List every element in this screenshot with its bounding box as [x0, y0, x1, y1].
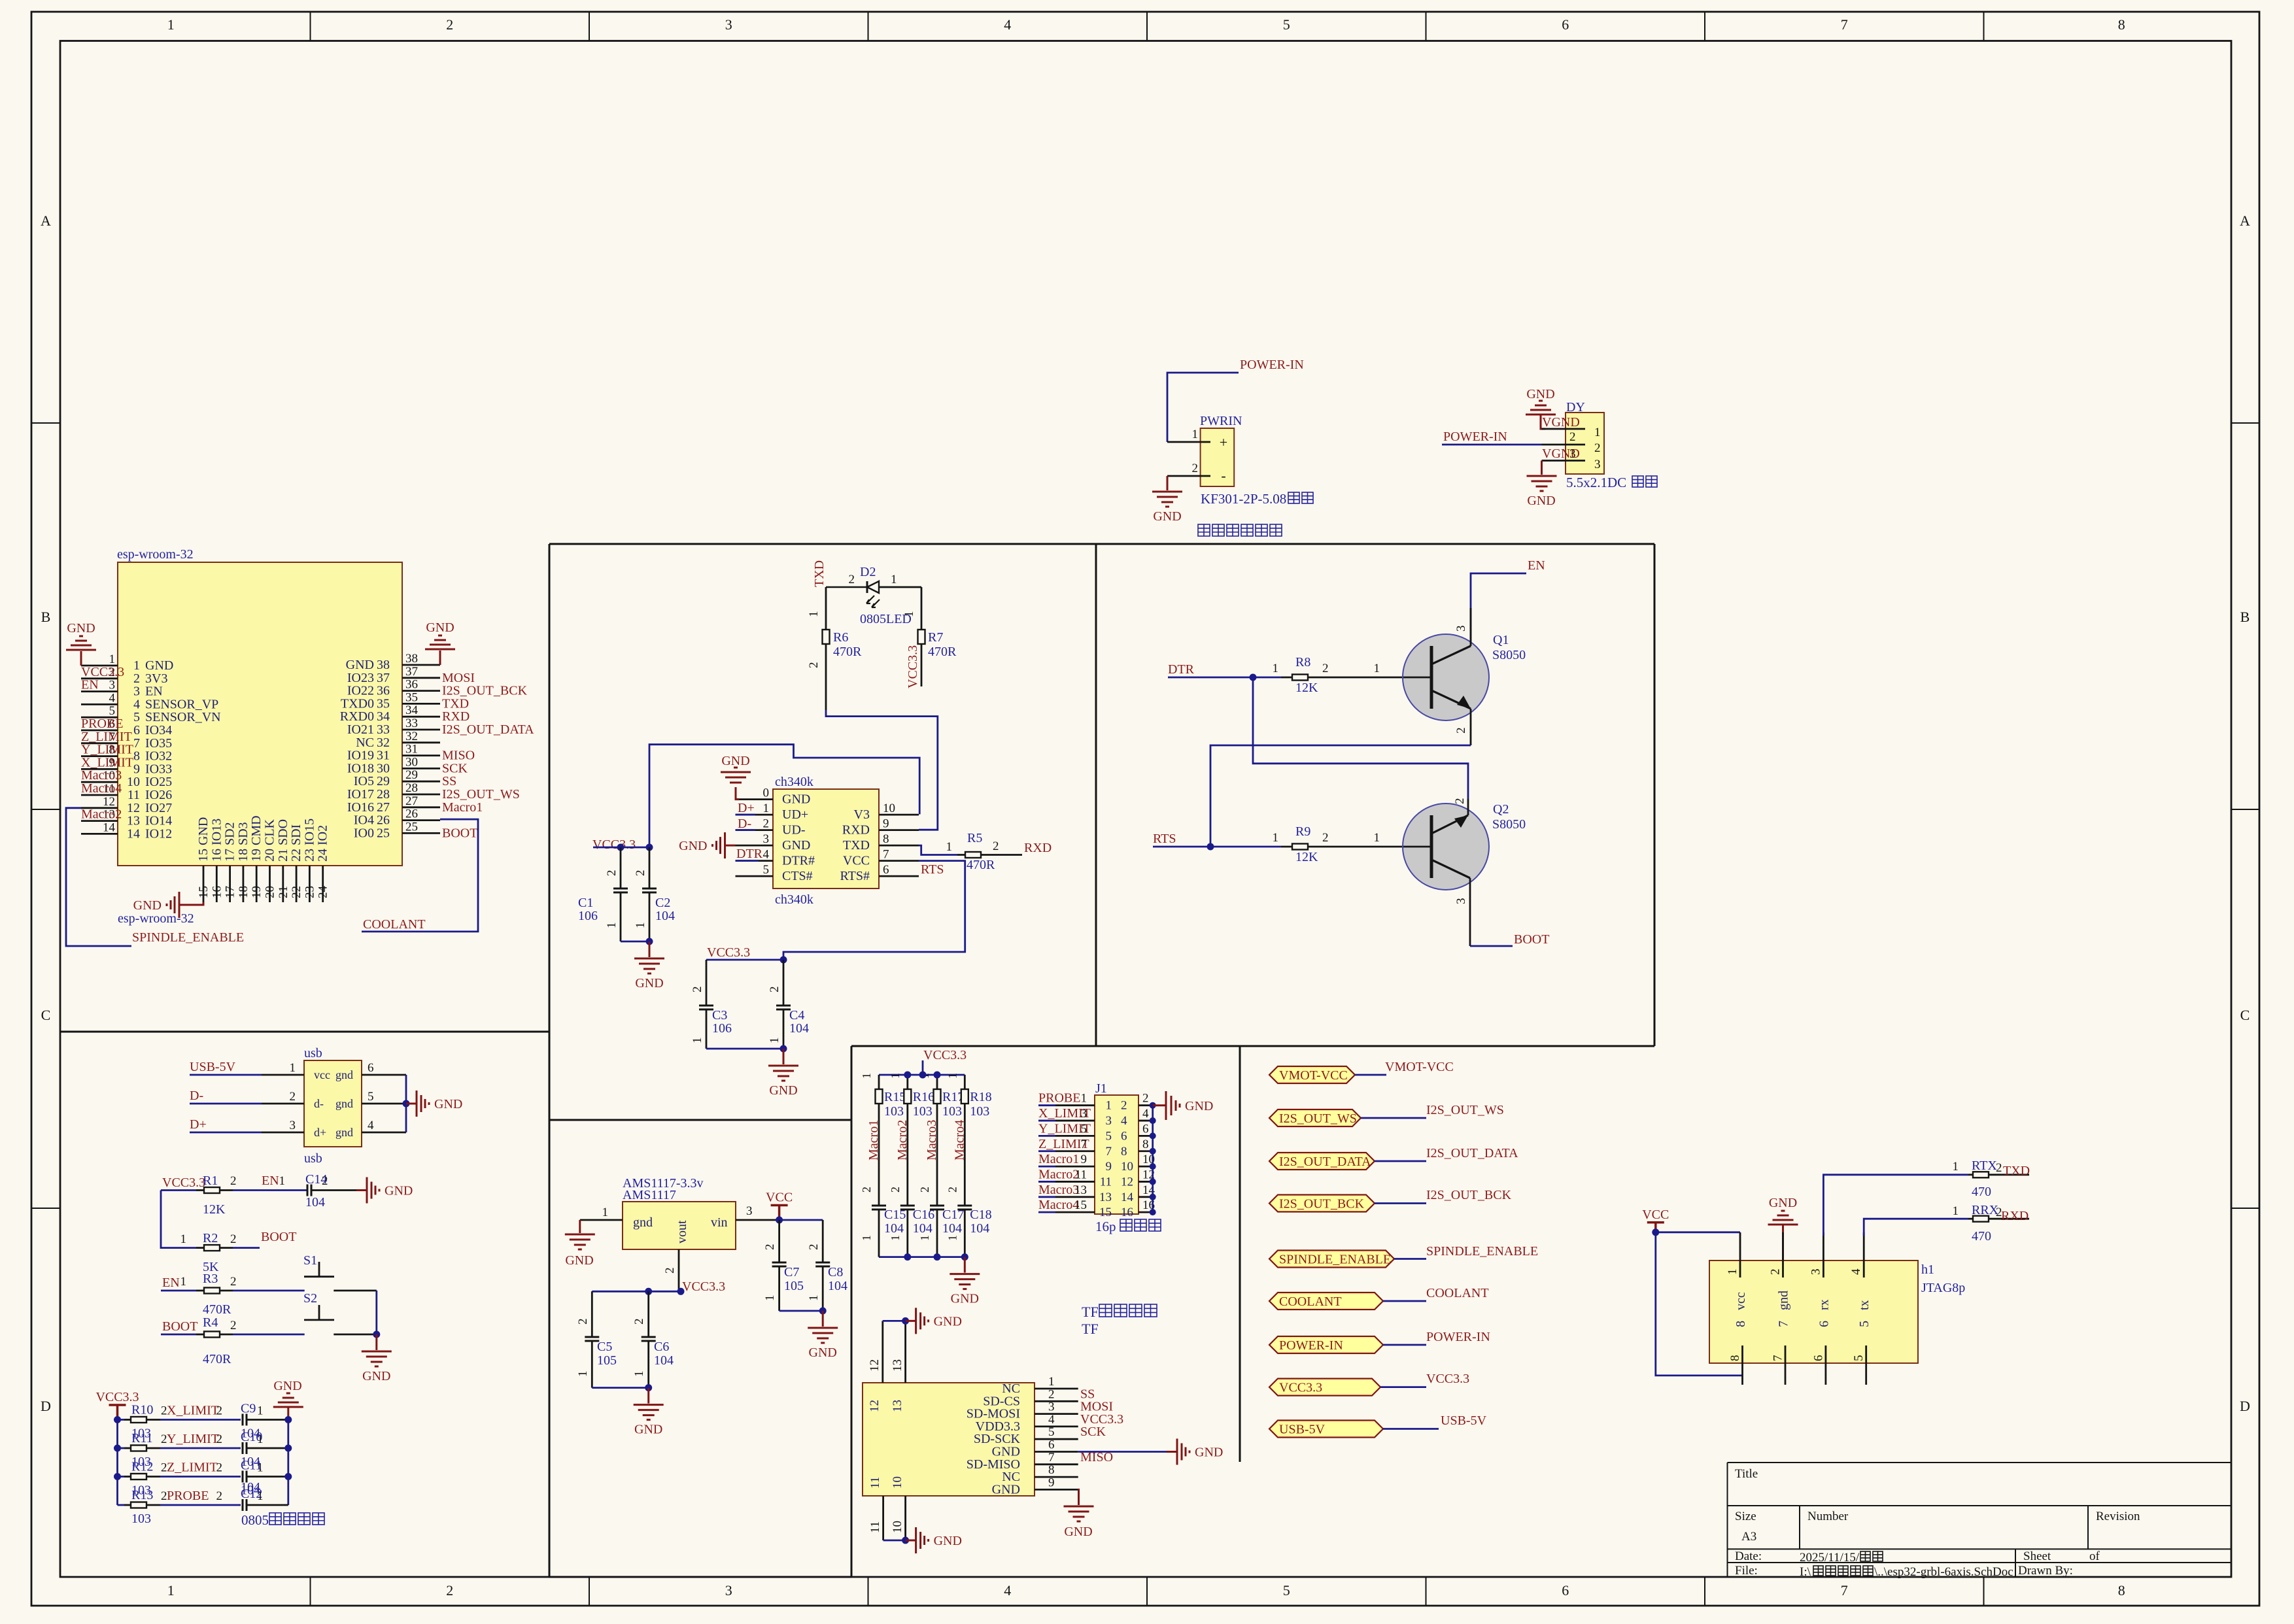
pin 1 TF right	[1035, 1388, 1078, 1390]
capacitor C6	[632, 1291, 674, 1387]
svg-text:JTAG8p: JTAG8p	[1921, 1281, 1965, 1295]
svg-text:2: 2	[605, 870, 619, 877]
svg-text:1: 1	[1374, 831, 1380, 845]
svg-text:RTS#: RTS#	[840, 869, 870, 883]
svg-text:1: 1	[1726, 1269, 1739, 1276]
ground C3C4	[768, 1049, 798, 1081]
svg-text:10: 10	[1121, 1160, 1133, 1174]
svg-text:35: 35	[405, 690, 418, 704]
svg-text:GND: GND	[1769, 1196, 1797, 1210]
svg-text:usb: usb	[304, 1046, 322, 1060]
svg-text:1: 1	[257, 1461, 264, 1475]
capacitor C10	[216, 1430, 288, 1469]
junction VCC jtag	[1652, 1228, 1659, 1236]
junction J1 rail	[1150, 1178, 1156, 1185]
svg-text:tx: tx	[1857, 1300, 1872, 1310]
svg-text:PROBE: PROBE	[81, 717, 123, 731]
svg-text:J1: J1	[1095, 1081, 1107, 1096]
svg-text:IO12: IO12	[145, 826, 172, 841]
ground C5C6	[634, 1388, 664, 1420]
svg-text:\..\esp32-grbl-6axis.SchDoc: \..\esp32-grbl-6axis.SchDoc	[1874, 1565, 2013, 1579]
junction vout	[677, 1288, 685, 1295]
svg-text:3: 3	[1594, 458, 1601, 471]
junction left rail	[114, 1416, 121, 1423]
svg-text:B: B	[41, 609, 51, 625]
pin 1 h1 top	[1739, 1232, 1741, 1277]
svg-text:15 GND: 15 GND	[196, 817, 211, 862]
svg-text:EN: EN	[162, 1276, 180, 1290]
svg-text:IO23: IO23	[347, 671, 374, 685]
junction C6 top	[645, 1288, 652, 1295]
svg-text:6: 6	[1121, 1129, 1127, 1143]
svg-text:GND: GND	[385, 1184, 413, 1198]
svg-text:1: 1	[860, 1073, 873, 1079]
svg-text:19: 19	[250, 886, 264, 898]
svg-text:2: 2	[1048, 1387, 1055, 1401]
svg-text:2: 2	[1453, 798, 1467, 805]
pin 3 h1 top	[1823, 1232, 1824, 1277]
svg-text:EN: EN	[81, 678, 99, 692]
svg-text:GND: GND	[721, 754, 749, 768]
junction J1 rail	[1150, 1209, 1156, 1215]
svg-text:gnd: gnd	[335, 1068, 353, 1081]
svg-text:POWER-IN: POWER-IN	[1426, 1330, 1490, 1344]
svg-text:8: 8	[2118, 16, 2125, 33]
svg-text:21: 21	[277, 886, 290, 898]
svg-text:3: 3	[1809, 1269, 1823, 1276]
pin 25 esp right	[402, 832, 440, 834]
svg-text:RXD0: RXD0	[340, 709, 374, 724]
button S1	[303, 1253, 377, 1291]
svg-text:3: 3	[109, 679, 116, 692]
svg-text:V3: V3	[854, 807, 870, 822]
svg-text:11: 11	[1100, 1175, 1112, 1189]
junction left rail	[114, 1473, 121, 1480]
svg-text:GND: GND	[1195, 1446, 1223, 1460]
svg-text:R13: R13	[131, 1488, 153, 1502]
svg-text:EN: EN	[1528, 558, 1545, 573]
ground usb	[406, 1091, 429, 1117]
svg-text:C4: C4	[789, 1008, 804, 1023]
svg-text:2: 2	[1121, 1099, 1127, 1113]
pin 5 esp left	[81, 717, 118, 719]
capacitor C11	[216, 1459, 288, 1498]
svg-text:3: 3	[1569, 447, 1576, 461]
resistor R18	[946, 1073, 991, 1206]
svg-text:SPINDLE_ENABLE: SPINDLE_ENABLE	[1426, 1244, 1538, 1259]
junction J1 rail	[1150, 1148, 1156, 1155]
svg-text:KF301-2P-5.08: KF301-2P-5.08	[1201, 491, 1286, 507]
svg-text:1: 1	[807, 611, 821, 618]
capacitor C5	[576, 1291, 617, 1387]
pin 8 esp left	[81, 755, 118, 757]
svg-text:IO4: IO4	[354, 813, 374, 828]
capacitor C16	[889, 1206, 934, 1257]
svg-text:USB-5V: USB-5V	[1441, 1413, 1487, 1428]
wire BOOT at Q2	[1470, 945, 1513, 947]
svg-text:2: 2	[216, 1461, 223, 1475]
svg-text:C18: C18	[970, 1208, 991, 1222]
svg-text:4: 4	[368, 1119, 374, 1132]
connector PWRIN KF301-2P	[1167, 414, 1313, 507]
svg-text:2: 2	[807, 1244, 821, 1251]
svg-text:IO25: IO25	[145, 775, 172, 789]
ground S2	[362, 1334, 392, 1366]
svg-text:GND: GND	[634, 1423, 662, 1437]
svg-text:GND: GND	[362, 1369, 390, 1383]
svg-text:3: 3	[1048, 1400, 1055, 1414]
pin 36 esp right	[402, 690, 440, 692]
ground esp pin1	[66, 621, 96, 666]
ground C14	[356, 1177, 379, 1204]
svg-text:2: 2	[763, 1244, 777, 1251]
svg-text:6: 6	[883, 863, 889, 877]
pin 12 J1 right	[1138, 1181, 1153, 1183]
wire vin to C7 C8	[779, 1219, 823, 1221]
wire TF top pins to gnd	[883, 1320, 906, 1322]
svg-text:8: 8	[1728, 1355, 1742, 1362]
svg-text:R15: R15	[884, 1090, 906, 1104]
wire D+ stub	[736, 814, 756, 816]
junction bottom rail	[961, 1253, 968, 1260]
junction J1 rail	[1150, 1102, 1156, 1109]
svg-text:POWER-IN: POWER-IN	[1443, 430, 1507, 444]
pin 7 TF right	[1035, 1463, 1078, 1465]
wire VCC down to pin8	[1656, 1232, 1743, 1376]
svg-text:USB-5V: USB-5V	[1279, 1423, 1326, 1437]
junction bottom rail	[934, 1253, 941, 1260]
svg-text:GND: GND	[782, 838, 810, 853]
svg-text:C: C	[2240, 1007, 2250, 1023]
junction RTS	[1207, 843, 1214, 851]
svg-text:1: 1	[257, 1404, 264, 1418]
svg-text:1: 1	[946, 1073, 959, 1079]
svg-text:RTX: RTX	[1972, 1159, 1997, 1173]
ic esp-wroom-32	[81, 547, 534, 926]
svg-text:2: 2	[889, 1187, 902, 1193]
svg-text:3: 3	[763, 832, 770, 846]
svg-text:5.5x2.1DC: 5.5x2.1DC	[1566, 475, 1626, 490]
svg-text:35: 35	[377, 696, 390, 711]
svg-text:CTS#: CTS#	[782, 869, 813, 883]
svg-text:6: 6	[1048, 1438, 1055, 1452]
pin 2 J1 right	[1138, 1104, 1153, 1106]
svg-text:1: 1	[279, 1174, 286, 1188]
svg-text:D: D	[2240, 1398, 2250, 1414]
svg-text:VCC: VCC	[843, 854, 870, 868]
svg-text:1: 1	[902, 611, 916, 618]
svg-text:2: 2	[133, 671, 140, 686]
svg-text:106: 106	[578, 909, 598, 923]
wire DTR junction to Q2 emitter	[1253, 677, 1468, 799]
svg-text:IO17: IO17	[347, 787, 374, 802]
wire left rail R10 network	[116, 1420, 118, 1506]
svg-text:16: 16	[1121, 1206, 1133, 1219]
svg-text:GND: GND	[679, 839, 707, 853]
svg-text:3: 3	[1081, 1107, 1087, 1121]
pin 3 ch340 left	[736, 845, 774, 847]
svg-text:1: 1	[634, 922, 647, 929]
capacitor C15	[860, 1206, 906, 1257]
svg-text:38: 38	[405, 652, 418, 666]
svg-text:SS: SS	[442, 774, 456, 788]
svg-text:RTS: RTS	[1153, 832, 1176, 846]
svg-text:28: 28	[405, 781, 418, 795]
svg-text:1: 1	[1273, 831, 1279, 845]
svg-text:X_LIMIT: X_LIMIT	[167, 1404, 219, 1418]
svg-text:IO18: IO18	[347, 761, 374, 775]
svg-text:esp-wroom-32: esp-wroom-32	[118, 911, 194, 926]
ground PWRIN pin2	[1152, 476, 1182, 524]
svg-text:Q2: Q2	[1493, 802, 1509, 817]
svg-text:4: 4	[1004, 1582, 1011, 1599]
svg-text:UD+: UD+	[782, 807, 808, 822]
port flag VMOT-VCC	[1269, 1060, 1454, 1083]
svg-text:R8: R8	[1295, 655, 1310, 669]
svg-text:R4: R4	[203, 1315, 218, 1330]
wire SPINDLE_ENABLE from esp pin12	[66, 808, 131, 946]
pin 15 J1 left	[1038, 1211, 1055, 1213]
svg-text:VCC3.3: VCC3.3	[592, 837, 636, 852]
svg-text:1: 1	[632, 1371, 646, 1378]
pin 30 esp right	[402, 768, 440, 770]
svg-text:rx: rx	[1817, 1299, 1831, 1310]
svg-text:ch340k: ch340k	[775, 892, 813, 907]
pin 3 usb left	[190, 1132, 262, 1134]
ground R15 network	[950, 1257, 980, 1289]
pin 7 h1 bottom	[1785, 1345, 1787, 1385]
svg-text:104: 104	[305, 1195, 325, 1210]
svg-text:3: 3	[746, 1204, 753, 1218]
pin 26 esp right	[402, 819, 440, 821]
pin 8 J1 right	[1138, 1150, 1153, 1152]
svg-text:TXD: TXD	[812, 560, 827, 587]
wire Q1 emitter to RTS	[1210, 745, 1471, 847]
svg-text:of: of	[2089, 1549, 2100, 1563]
svg-text:D: D	[41, 1398, 51, 1414]
svg-text:34: 34	[377, 709, 390, 724]
ic ch340k U2	[736, 775, 919, 907]
svg-text:28: 28	[377, 787, 390, 802]
svg-text:GND: GND	[934, 1314, 962, 1328]
pin 13 J1 left	[1038, 1196, 1055, 1198]
svg-text:7: 7	[133, 736, 140, 751]
wire J1 right rail	[1152, 1106, 1154, 1212]
svg-text:Macro1: Macro1	[1038, 1152, 1079, 1166]
svg-text:D+: D+	[190, 1117, 207, 1132]
svg-text:IO35: IO35	[145, 736, 172, 751]
svg-text:1: 1	[167, 1582, 175, 1599]
svg-text:R5: R5	[967, 831, 982, 845]
svg-text:MOSI: MOSI	[442, 671, 475, 685]
pin 16 J1 right	[1138, 1211, 1153, 1213]
svg-text:32: 32	[377, 736, 390, 750]
svg-text:18 SD3: 18 SD3	[236, 822, 250, 862]
svg-text:Macro4: Macro4	[81, 781, 122, 796]
resistor R12	[118, 1460, 241, 1498]
pin 4 h1 top	[1863, 1232, 1865, 1277]
pin 1 usb left	[190, 1074, 262, 1076]
svg-text:C3: C3	[712, 1008, 727, 1023]
svg-text:4: 4	[133, 697, 140, 711]
svg-text:14: 14	[127, 826, 140, 841]
svg-text:1: 1	[1374, 662, 1380, 675]
wire C3 C4 bottom	[706, 1048, 783, 1050]
svg-text:Revision: Revision	[2096, 1510, 2140, 1523]
ground DY top	[1526, 387, 1556, 429]
svg-text:Y_LIMIT: Y_LIMIT	[81, 743, 133, 757]
svg-text:26: 26	[405, 807, 418, 821]
svg-text:GND: GND	[769, 1083, 797, 1098]
svg-text:25: 25	[377, 826, 390, 840]
port flag I2S_OUT_DATA	[1269, 1146, 1518, 1170]
svg-text:104: 104	[942, 1221, 962, 1236]
svg-text:2: 2	[860, 1187, 873, 1193]
capacitor C18	[946, 1206, 991, 1257]
junction right rail	[284, 1416, 292, 1423]
junction C4 bottom	[780, 1045, 787, 1053]
svg-text:5: 5	[1048, 1425, 1055, 1439]
pin 6 TF right	[1035, 1451, 1078, 1453]
pin 2 TF right	[1035, 1400, 1078, 1402]
svg-text:usb: usb	[304, 1151, 322, 1166]
svg-text:ch340k: ch340k	[775, 775, 813, 789]
svg-text:31: 31	[405, 743, 418, 756]
pin 37 esp right	[402, 677, 440, 679]
junction top rail	[919, 1072, 927, 1079]
svg-text:2: 2	[446, 16, 453, 33]
svg-text:GND: GND	[635, 976, 663, 990]
svg-text:2: 2	[1569, 430, 1576, 444]
junction J1 rail	[1150, 1163, 1156, 1170]
svg-text:VCC3.3: VCC3.3	[1279, 1381, 1322, 1395]
svg-text:DTR: DTR	[736, 847, 763, 861]
svg-text:12: 12	[868, 1400, 882, 1412]
pin 7 esp left	[81, 742, 118, 744]
svg-text:gnd: gnd	[633, 1215, 653, 1230]
svg-text:5: 5	[1283, 1582, 1290, 1599]
pin 8 ch340 right	[879, 845, 919, 847]
wire h1 rx to RTX	[1823, 1175, 1968, 1236]
resistor R6	[807, 587, 862, 710]
svg-text:DTR#: DTR#	[782, 854, 815, 868]
svg-text:UD-: UD-	[782, 823, 806, 837]
svg-text:1: 1	[946, 1235, 959, 1241]
pin 32 esp right	[402, 741, 440, 743]
pin 20 esp bottom	[269, 866, 271, 902]
svg-text:470: 470	[1972, 1229, 1991, 1243]
svg-text:2: 2	[1322, 662, 1329, 675]
svg-text:17: 17	[224, 886, 237, 898]
wire C5 C6 bottom	[592, 1387, 648, 1389]
svg-text:1: 1	[763, 802, 770, 815]
pin 9 esp left	[81, 768, 118, 770]
wire R6 to ch340 RXD	[826, 710, 938, 830]
svg-text:Macro2: Macro2	[895, 1120, 910, 1160]
svg-text:16p: 16p	[1095, 1219, 1116, 1234]
svg-text:11: 11	[128, 788, 140, 802]
svg-text:EN: EN	[145, 685, 163, 699]
svg-text:D-: D-	[190, 1089, 203, 1103]
svg-text:34: 34	[405, 703, 419, 717]
svg-text:Macro1: Macro1	[866, 1120, 881, 1160]
svg-text:SPINDLE_ENABLE: SPINDLE_ENABLE	[132, 930, 244, 945]
svg-text:4: 4	[1142, 1107, 1149, 1121]
svg-text:1: 1	[918, 1235, 931, 1241]
wire RTS	[1153, 846, 1281, 848]
svg-text:D2: D2	[860, 565, 876, 579]
svg-text:vout: vout	[675, 1220, 689, 1243]
svg-text:gnd: gnd	[335, 1126, 353, 1139]
capacitor C17	[918, 1206, 964, 1257]
svg-text:R3: R3	[203, 1272, 218, 1286]
svg-text:S2: S2	[303, 1291, 317, 1306]
svg-text:16 IO13: 16 IO13	[209, 819, 224, 862]
svg-text:-: -	[1221, 467, 1225, 484]
svg-text:Macro2: Macro2	[1038, 1167, 1079, 1181]
svg-text:Number: Number	[1807, 1510, 1849, 1523]
svg-text:12: 12	[868, 1359, 882, 1372]
resistor R7	[902, 587, 957, 686]
svg-text:10: 10	[891, 1521, 904, 1533]
power VCC at JTAG	[1647, 1223, 1664, 1232]
svg-text:2: 2	[322, 1174, 328, 1188]
svg-text:5: 5	[763, 863, 770, 877]
svg-text:R12: R12	[131, 1460, 153, 1474]
svg-text:MISO: MISO	[442, 749, 475, 763]
svg-text:RXD: RXD	[842, 823, 870, 837]
pin 28 esp right	[402, 794, 440, 796]
svg-text:1: 1	[602, 1206, 609, 1219]
svg-text:1: 1	[1192, 428, 1199, 441]
svg-text:0: 0	[763, 787, 770, 800]
svg-text:5: 5	[1283, 16, 1290, 33]
pin 13 esp left	[81, 820, 118, 822]
junction C2 bottom	[646, 938, 653, 945]
svg-text:8: 8	[883, 832, 889, 846]
resistor R15	[860, 1073, 906, 1206]
svg-text:GND: GND	[782, 792, 810, 807]
svg-text:2: 2	[230, 1174, 237, 1188]
svg-text:1: 1	[889, 1073, 902, 1079]
svg-text:1: 1	[1273, 662, 1279, 675]
capacitor C9	[216, 1402, 288, 1441]
svg-text:2: 2	[576, 1319, 590, 1325]
svg-text:TXD0: TXD0	[341, 696, 374, 711]
port flag USB-5V	[1269, 1413, 1487, 1438]
port flag I2S_OUT_WS	[1269, 1103, 1504, 1126]
resistor R4 row	[161, 1315, 305, 1366]
svg-text:EN: EN	[262, 1174, 279, 1188]
svg-text:I2S_OUT_DATA: I2S_OUT_DATA	[442, 722, 534, 737]
pin 11 esp left	[81, 794, 118, 796]
svg-text:1: 1	[257, 1489, 264, 1503]
power VCC3.3 at R10	[109, 1405, 126, 1419]
svg-text:10: 10	[127, 775, 140, 789]
pin 19 esp bottom	[256, 866, 258, 902]
svg-text:BOOT: BOOT	[162, 1319, 197, 1334]
svg-text:2: 2	[290, 1090, 296, 1104]
pin 14 J1 right	[1138, 1196, 1153, 1198]
svg-text:POWER-IN: POWER-IN	[1240, 358, 1304, 372]
pin 24 esp bottom	[322, 866, 324, 902]
svg-text:6: 6	[1817, 1321, 1831, 1327]
capacitor C14	[305, 1172, 356, 1210]
svg-text:Date:: Date:	[1735, 1549, 1762, 1563]
pin 0 ch340 left	[736, 798, 774, 800]
svg-text:GND: GND	[1153, 509, 1181, 524]
svg-text:103: 103	[942, 1104, 962, 1119]
